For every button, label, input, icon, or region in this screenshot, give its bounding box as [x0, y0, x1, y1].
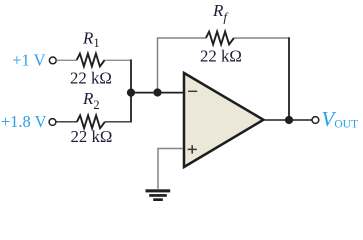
wire: [105, 121, 132, 123]
input terminal +1 V: [49, 57, 56, 64]
wire: [263, 119, 312, 121]
svg-text:Rf: Rf: [212, 1, 229, 25]
wire: [158, 38, 206, 93]
junction output node: [285, 116, 293, 124]
node A junction of R1/R2: [127, 89, 135, 97]
resistor R1: [77, 54, 105, 67]
wire: [130, 59, 132, 122]
svg-text:22 kΩ: 22 kΩ: [200, 47, 242, 66]
wire: [288, 37, 290, 120]
resistor R2: [77, 115, 105, 128]
svg-text:R2: R2: [82, 89, 100, 112]
wire: [234, 37, 289, 39]
svg-text:22 kΩ: 22 kΩ: [70, 69, 112, 88]
svg-text:22 kΩ: 22 kΩ: [71, 127, 113, 146]
output terminal: [312, 117, 319, 124]
op-amp U1: [184, 73, 263, 167]
op-amp noninverting input marker: [188, 145, 197, 153]
wire: [131, 92, 184, 94]
input terminal +1.8 V: [49, 119, 56, 126]
svg-text:+1 V: +1 V: [12, 50, 45, 69]
junction summing node: [153, 88, 161, 96]
wire: [105, 59, 132, 61]
wire: [56, 121, 77, 123]
svg-text:+1.8 V: +1.8 V: [1, 112, 47, 131]
svg-text:R1: R1: [82, 29, 100, 51]
wire: [158, 149, 183, 189]
svg-text:VOUT: VOUT: [322, 107, 358, 131]
resistor Rf: [206, 32, 234, 45]
op-amp inverting input marker: [188, 90, 197, 92]
ground: [146, 189, 171, 201]
wire: [56, 59, 77, 61]
